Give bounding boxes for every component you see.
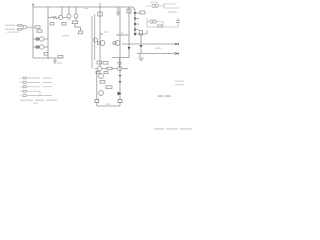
resistor R18 vertical bbox=[140, 31, 143, 36]
transistor Q7 bbox=[115, 41, 120, 46]
wire diode link bbox=[140, 35, 142, 54]
wire top-right lower bbox=[168, 11, 177, 13]
transistor Q3 bbox=[40, 45, 44, 49]
capacitor C3 bbox=[176, 18, 180, 22]
connector pin 2 bbox=[23, 81, 26, 83]
wire left row 1 bbox=[33, 38, 48, 40]
capacitor C2 bbox=[118, 58, 122, 68]
connector pin 5 bbox=[23, 95, 26, 97]
wire conn row 2 bbox=[27, 81, 52, 83]
connector P2 bbox=[175, 53, 179, 55]
resistor R33 bbox=[95, 100, 99, 103]
junction x62 bbox=[61, 6, 62, 7]
transistor Q8 bbox=[94, 38, 98, 42]
label under y58 bbox=[57, 63, 62, 64]
capacitor C1 bbox=[117, 7, 120, 16]
wire rail x33 bbox=[32, 4, 34, 58]
resistor R14 bbox=[140, 11, 145, 14]
resistor R3 bbox=[35, 26, 40, 28]
resistor R23c bbox=[104, 72, 108, 74]
resistor R1 bbox=[18, 25, 21, 27]
diode D6 bbox=[140, 45, 143, 48]
label bottom mid bbox=[158, 95, 164, 97]
lamp LA2 bbox=[155, 4, 158, 7]
wire ground stub bbox=[54, 58, 56, 61]
wire rail x129 bbox=[128, 7, 130, 58]
wire rail x97 lower bbox=[96, 70, 98, 106]
connector pin 3 bbox=[23, 86, 26, 88]
resistor R23b bbox=[96, 72, 100, 74]
wire left row 2 bbox=[33, 46, 48, 48]
label right mid 2 bbox=[175, 84, 184, 85]
resistor R8 bbox=[58, 55, 63, 57]
diode D8 bbox=[119, 81, 122, 83]
label q6 bbox=[104, 32, 109, 33]
wire rail x48 bbox=[47, 7, 49, 59]
label top right bbox=[150, 2, 158, 3]
junction x120 y76 bbox=[119, 75, 120, 76]
transistor Q11 bbox=[99, 74, 104, 79]
wire left bottom y58 bbox=[33, 57, 63, 59]
junction x120 y82 bbox=[119, 81, 120, 82]
resistor R34 bbox=[118, 100, 122, 103]
label bus blob bbox=[84, 8, 88, 9]
resistor R12 bbox=[127, 9, 131, 13]
resistor R22 bbox=[103, 62, 108, 65]
junction x76 bbox=[75, 6, 76, 7]
connector pin 4 bbox=[23, 90, 26, 92]
transistor Q6 bbox=[100, 41, 105, 46]
resistor R5 bbox=[36, 38, 39, 40]
resistor R2 bbox=[18, 29, 21, 31]
label out line bbox=[155, 48, 161, 49]
resistor R32 bbox=[62, 23, 66, 25]
wire input line 1 bbox=[17, 24, 24, 27]
transistor Q4 bbox=[59, 16, 63, 20]
label title block bbox=[154, 128, 164, 129]
junction x48 bbox=[47, 6, 48, 7]
transistor Q12 bbox=[99, 91, 104, 96]
wire top supply bus bbox=[33, 6, 133, 8]
wire chain rail x135 bbox=[133, 7, 135, 36]
connector P1 bbox=[175, 43, 179, 45]
wire stub x80.5 bbox=[80, 27, 82, 31]
label y104 bbox=[106, 104, 111, 105]
diode chain D3 bbox=[134, 23, 136, 25]
label mid text bbox=[62, 35, 69, 36]
wire right-lower cap stub bbox=[177, 23, 179, 27]
wire conn row 1 bbox=[27, 77, 52, 79]
wire top-right feed bbox=[146, 5, 164, 7]
wire q5 base bbox=[58, 18, 69, 21]
diode D6a bbox=[128, 47, 131, 50]
label input 1 bbox=[5, 25, 15, 26]
wire second bus y17.5 bbox=[48, 17, 52, 19]
resistor R19 bbox=[98, 42, 101, 44]
resistor R11 bbox=[98, 12, 102, 16]
wire right-lower row bbox=[147, 22, 163, 28]
diode D9 bbox=[118, 92, 122, 96]
resistor R26 bbox=[158, 25, 163, 27]
ground bbox=[53, 61, 57, 63]
resistor R31 bbox=[50, 23, 54, 25]
label input 2 bbox=[5, 29, 15, 30]
transistor Q1 bbox=[23, 26, 26, 29]
resistor R17 bbox=[135, 29, 139, 31]
transistor Q2 bbox=[40, 37, 44, 41]
resistor R16 bbox=[135, 23, 139, 25]
diode D7 bbox=[119, 75, 122, 77]
wire rail x92 bbox=[91, 16, 93, 69]
wire conn row 5 bbox=[27, 95, 52, 97]
diode chain D1 bbox=[134, 12, 136, 14]
wire q-right branch bbox=[139, 54, 141, 57]
resistor R6 bbox=[36, 46, 39, 48]
wire out line 1 bbox=[122, 43, 174, 45]
wire input line 2 bbox=[17, 28, 24, 29]
resistor R23 bbox=[107, 67, 112, 70]
wire drop x69 bbox=[68, 7, 70, 14]
connector pin 1 bbox=[23, 77, 26, 79]
wire rail x94.7 bbox=[94, 14, 96, 60]
label top text bbox=[4, 28, 6, 30]
wire drop x62 bbox=[61, 7, 63, 16]
wire rail x100 bbox=[99, 3, 101, 66]
junction x118 bbox=[117, 6, 118, 7]
resistor R10 bbox=[72, 21, 78, 24]
wire y27 link bbox=[74, 26, 81, 28]
wire conn row 3 bbox=[27, 86, 52, 88]
wire out line 2 bbox=[137, 53, 174, 55]
wire bottom y106 bbox=[97, 105, 120, 107]
wire y35 link bbox=[116, 34, 129, 36]
wire right-lower rail bbox=[146, 18, 148, 27]
resistor R9 zigzag bbox=[52, 16, 57, 18]
label pin numbers bbox=[20, 78, 22, 79]
wire top-right tee bbox=[164, 3, 179, 8]
junction x129 bbox=[128, 6, 129, 7]
wire rail x120 bbox=[119, 7, 121, 106]
label q7 bbox=[118, 33, 123, 34]
wire input join bbox=[26, 26, 33, 28]
wire conn vertical bbox=[39, 91, 41, 95]
wire y34 to right block bbox=[135, 30, 147, 34]
lamp LA1 bbox=[152, 4, 155, 7]
resistor R24 bbox=[100, 81, 105, 84]
resistor R7 bbox=[44, 53, 48, 56]
resistor R20 bbox=[113, 42, 116, 44]
resistor R4 bbox=[37, 30, 42, 32]
wire x100 tick bbox=[100, 33, 103, 35]
wire bottom-mid y68.5 bbox=[95, 68, 128, 70]
motor M2 bbox=[153, 20, 156, 23]
transistor Q9 bbox=[98, 66, 102, 70]
diode chain D5 bbox=[134, 33, 136, 35]
resistor R13 bbox=[135, 12, 140, 14]
junction x100 bbox=[99, 6, 100, 7]
label conn row bbox=[20, 100, 33, 101]
diode chain D2 bbox=[134, 17, 136, 19]
wire conn row 4 bbox=[27, 90, 40, 92]
transistor Q5 bbox=[74, 14, 78, 18]
junction x69 bbox=[68, 6, 69, 7]
transistor Q4b bbox=[67, 14, 71, 18]
wire right-lower bus y27 bbox=[147, 26, 178, 28]
diode chain D4 bbox=[134, 28, 136, 30]
resistor R15 bbox=[135, 18, 139, 20]
transistor Q10 bbox=[118, 66, 122, 70]
wire mid y57 link bbox=[112, 57, 129, 59]
resistor R25 bbox=[106, 86, 112, 89]
junction x120 y50 bbox=[119, 49, 120, 50]
resistor R30 bbox=[79, 31, 83, 34]
resistor R21 bbox=[97, 61, 102, 64]
motor M1 bbox=[150, 20, 153, 23]
label right mid bbox=[175, 81, 184, 82]
ground 2 bbox=[139, 58, 144, 61]
wire drop x76 bbox=[75, 7, 76, 27]
